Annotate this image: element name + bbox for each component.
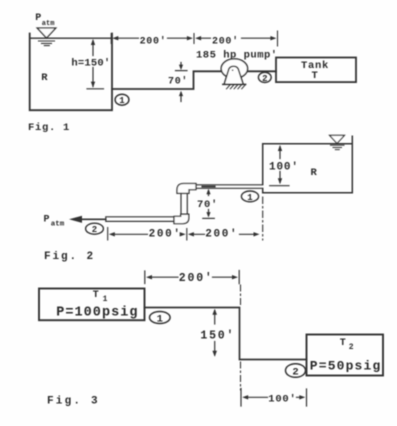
- svg-text:T: T: [312, 70, 318, 82]
- 100' dimension: [270, 145, 289, 186]
- svg-text:Fig. 1: Fig. 1: [28, 122, 70, 134]
- svg-text:R: R: [311, 167, 318, 179]
- tank T2 box: [307, 335, 384, 376]
- P_atm outflow arrow: [80, 218, 106, 220]
- P_atm label (fig2): [44, 214, 65, 228]
- svg-text:T: T: [340, 338, 346, 349]
- svg-text:200': 200': [205, 229, 238, 241]
- reservoir R (fig2) walls: [263, 136, 353, 192]
- svg-text:1: 1: [119, 96, 125, 106]
- upper elbow fitting: [177, 184, 196, 194]
- svg-text:2: 2: [92, 225, 97, 235]
- svg-text:P: P: [35, 13, 41, 24]
- node 1 circled (fig3): [150, 312, 171, 324]
- surface hatch marks: [39, 41, 55, 46]
- pump symbol: [221, 59, 247, 78]
- svg-text:100': 100': [268, 393, 296, 405]
- water surface line: [30, 37, 112, 39]
- 70' dimension (fig1): [176, 63, 188, 102]
- svg-text:P: P: [44, 214, 50, 225]
- svg-text:Fig. 2: Fig. 2: [44, 251, 95, 263]
- free-surface triangle symbol: [37, 28, 56, 38]
- vertical pipe (double line): [181, 193, 187, 214]
- svg-text:70': 70': [168, 76, 188, 88]
- svg-text:2: 2: [349, 343, 354, 352]
- svg-text:P=100psig: P=100psig: [56, 305, 138, 320]
- svg-text:atm: atm: [51, 220, 65, 228]
- svg-text:1: 1: [247, 193, 253, 203]
- svg-text:2: 2: [262, 74, 267, 84]
- 150' dimension: [212, 309, 217, 357]
- centerline (dash-dot) fig3: [240, 285, 242, 305]
- svg-text:200': 200': [179, 272, 214, 285]
- lower pipe (double line, open left end): [106, 217, 174, 222]
- svg-text:Fig. 3: Fig. 3: [47, 396, 100, 408]
- tank T box: [276, 58, 356, 83]
- svg-text:200': 200': [140, 35, 167, 47]
- node 2 circled (fig2): [86, 223, 104, 234]
- centerline (dash-dot) below tank: [262, 197, 264, 240]
- svg-text:T: T: [93, 290, 99, 301]
- node 1 circled: [115, 94, 129, 105]
- 200' + 200' bottom dimension chain (fig2): [108, 228, 260, 241]
- tank T1 box: [39, 289, 145, 321]
- 200' + 200' top dimension chain: [111, 31, 277, 46]
- 100' bottom dimension (fig3): [241, 389, 307, 407]
- wire pipe T1 to T2: [145, 308, 307, 360]
- pipe into tank (double line): [196, 185, 263, 189]
- svg-text:70': 70': [197, 199, 218, 211]
- svg-text:100': 100': [269, 161, 299, 173]
- node 1 circled (fig2): [241, 191, 258, 202]
- svg-text:h=150': h=150': [71, 58, 110, 70]
- svg-text:1: 1: [103, 295, 108, 304]
- 70' dimension (fig2): [202, 187, 214, 219]
- P_atm label: [35, 13, 54, 28]
- svg-text:150': 150': [200, 329, 235, 342]
- pump base hatching: [227, 85, 246, 89]
- svg-text:1: 1: [157, 313, 163, 325]
- reservoir R tank walls: [30, 34, 112, 111]
- svg-text:200': 200': [149, 229, 182, 241]
- 200' top dimension (fig3): [145, 271, 239, 284]
- node 2 circled (fig1): [258, 72, 271, 82]
- wire pipe from reservoir to pump: [112, 71, 276, 89]
- svg-text:atm: atm: [42, 20, 55, 28]
- svg-text:2: 2: [292, 367, 298, 379]
- node 2 circled (fig3): [286, 364, 306, 378]
- svg-text:200': 200': [212, 35, 239, 47]
- free-surface triangle (fig2): [330, 135, 345, 143]
- svg-text:R: R: [41, 72, 48, 84]
- h=150' dimension arrow: [87, 39, 104, 89]
- lower elbow fitting: [174, 214, 189, 223]
- svg-text:P=50psig: P=50psig: [310, 358, 382, 373]
